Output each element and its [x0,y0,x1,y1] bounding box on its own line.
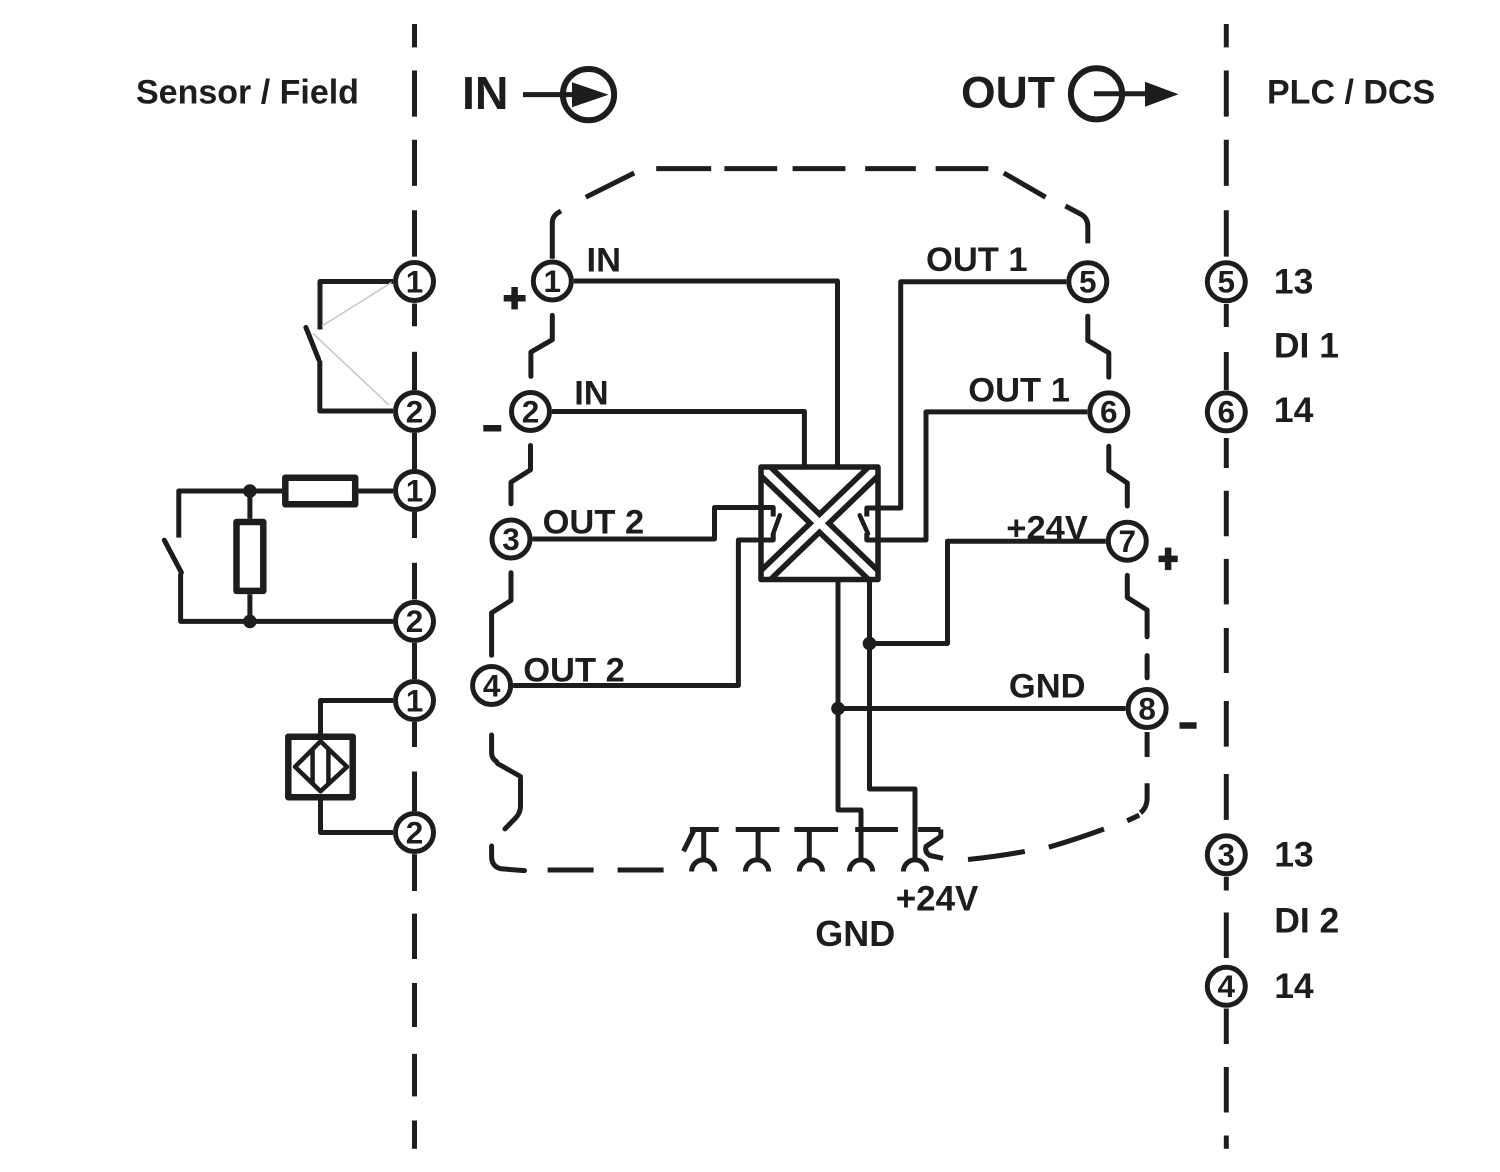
OUT direction icon wire [1094,91,1147,96]
resistor R1 (horizontal) wire [250,489,282,494]
svg-text:1: 1 [406,682,424,718]
PLC/DCS boundary dashed line [1224,24,1229,1149]
isolator right contact stub bottom [867,533,878,540]
svg-text:1: 1 [406,263,424,299]
module outline dashed bottom-right swoosh [968,732,1147,860]
module outline dashed left column jogs [492,315,553,870]
svg-text:GND: GND [815,913,895,954]
isolator left contact stub top [761,508,773,517]
PLC terminal circle 4 [1207,967,1245,1005]
wire OUT 1 from isolator to terminal 6 [867,412,1088,540]
resistor R2 (vertical) body [237,522,264,591]
junction dot lower (resistor network) [243,615,257,629]
wire IN- from terminal 2 to isolator [552,412,804,467]
terminal circle 1 (sensor row 2) [396,472,434,510]
svg-text:OUT 1: OUT 1 [926,241,1028,279]
junction dot upper (resistor network) [243,484,257,498]
proximity sensor body [288,737,352,798]
svg-text:4: 4 [1218,968,1236,1004]
module outline dashed top [552,169,1088,259]
terminal circle 1 (sensor row 1) [396,263,434,301]
ground symbol 1 stem [701,830,706,859]
isolator right contact blade [860,515,868,533]
isolator terminal circle 5 [1069,263,1107,301]
switch S2 blade [164,540,181,572]
ground symbol 3 stem [807,830,812,859]
junction dot GND [831,702,845,716]
svg-text:2: 2 [522,393,540,429]
isolator terminal circle 6 [1090,393,1128,431]
svg-text:6: 6 [1100,394,1118,430]
switch S2 wire down to node [181,574,393,622]
junction dot +24V [863,637,877,651]
svg-text:14: 14 [1274,390,1314,430]
svg-text:13: 13 [1274,262,1314,302]
minus sign at input terminal 2 [483,425,501,432]
svg-text:3: 3 [502,521,520,557]
PLC terminal circle 3 [1207,836,1245,874]
svg-text:1: 1 [544,263,562,299]
proximity sensor wire bottom [321,801,394,833]
isolator box U1 [761,467,878,580]
resistor R2 (vertical) top stem [247,491,252,519]
terminal circle 2 (sensor row 3) [396,814,434,852]
isolator terminal circle 3 [492,520,530,558]
PLC terminal circle 5 [1207,263,1245,301]
ground symbol 2 stem [756,830,761,859]
isolator right contact white pocket [860,508,875,541]
isolator terminal circle 1 [533,262,571,300]
OUT direction icon circle [1071,68,1122,119]
svg-text:DI 1: DI 1 [1274,326,1339,366]
switch S1 blade [306,327,319,359]
switch S1 guide line upper [322,283,392,327]
svg-text:2: 2 [406,393,424,429]
isolator left contact white pocket [764,508,780,541]
module outline dashed Z-drop after last ground bar [926,830,943,859]
resistor network wires: left branch with switch S2 [179,491,250,538]
isolator left contact blade [773,515,780,533]
svg-text:8: 8 [1138,690,1156,726]
svg-text:2: 2 [406,603,424,639]
sensor/field boundary dashed line [412,24,417,1149]
svg-text:OUT 1: OUT 1 [968,372,1070,410]
isolator left contact stub bottom [761,533,773,540]
terminal circle 2 (sensor row 1) [396,393,434,431]
svg-text:2: 2 [406,814,424,850]
svg-text:DI 2: DI 2 [1274,901,1339,941]
isolator X white core 2 [758,464,881,583]
resistor R1 wire to terminal 1 [359,489,394,494]
IN direction icon circle [563,69,614,120]
ground symbol 3 arc [799,860,822,872]
switch S1 wire to terminal 2 [320,361,393,412]
IN direction icon arrowhead [572,82,609,107]
minus sign at terminal 8 [1180,722,1197,729]
svg-text:IN: IN [587,242,622,280]
wire OUT 2 from terminal 3 to isolator contact [533,508,774,540]
wire GND from isolator bottom [838,580,861,859]
svg-text:5: 5 [1218,264,1236,300]
isolator terminal circle 7 [1108,522,1146,560]
svg-text:+24V: +24V [896,880,979,919]
ground symbol 4 arc [849,860,872,872]
svg-text:13: 13 [1274,835,1314,875]
svg-text:Sensor / Field: Sensor / Field [136,74,359,112]
isolator X white core 1 [758,464,881,583]
resistor R1 (horizontal) body [285,478,355,505]
wire OUT 2 from terminal 4 to isolator contact [513,533,773,686]
svg-text:GND: GND [1009,668,1086,706]
wire +24V supply from isolator bottom [870,580,916,859]
svg-text:6: 6 [1218,394,1236,430]
svg-text:14: 14 [1274,966,1314,1006]
module outline dashed right column jogs [1088,316,1147,678]
terminal circle 1 (sensor row 3) [396,682,434,720]
svg-text:PLC / DCS: PLC / DCS [1267,74,1435,112]
switch S1 guide line lower [313,334,389,406]
svg-text:+24V: +24V [1006,510,1088,548]
proximity sensor bar 2 [326,750,331,784]
ground symbol 2 arc [745,860,768,872]
resistor R2 bottom stem [247,594,252,621]
svg-text:1: 1 [406,472,424,508]
IN direction icon wire [523,92,575,97]
proximity sensor wire top [321,701,394,734]
svg-text:OUT 2: OUT 2 [543,504,645,542]
isolator terminal circle 2 [512,393,550,431]
isolator terminal circle 4 [473,667,511,705]
module outline dashed: ground bars row (dashes) [690,827,941,832]
switch S1 wire to terminal 1 [320,282,393,330]
module outline dashed bottom [548,828,696,870]
svg-text:OUT 2: OUT 2 [523,652,625,690]
ground symbol 5 arc [903,860,926,872]
wire OUT 1 from isolator to terminal 5 [867,282,1067,508]
isolator X diagonal 1 [759,465,880,582]
svg-text:7: 7 [1119,523,1137,559]
OUT direction icon arrowhead [1145,82,1179,107]
isolator terminal circle 8 [1128,690,1166,728]
proximity sensor diamond [295,741,347,791]
svg-text:OUT: OUT [961,69,1055,118]
svg-text:IN: IN [462,67,509,119]
wire IN+ from terminal 1 to isolator [574,281,838,467]
ground symbol 1 arc [692,860,715,872]
isolator right contact stub top [867,508,878,517]
svg-text:5: 5 [1079,264,1097,300]
plus sign at input terminal 1 [504,287,526,309]
proximity sensor bar 1 [310,750,315,784]
isolator X diagonal 2 [759,465,880,582]
wire GND to terminal 8 [838,706,1126,711]
terminal circle 2 (sensor row 2) [396,602,434,640]
svg-text:4: 4 [483,667,501,703]
wire +24V to terminal 7 [870,541,1106,643]
plus sign at terminal 7 [1159,548,1178,571]
svg-text:3: 3 [1218,837,1236,873]
PLC terminal circle 6 [1207,393,1245,431]
svg-text:IN: IN [574,375,609,413]
